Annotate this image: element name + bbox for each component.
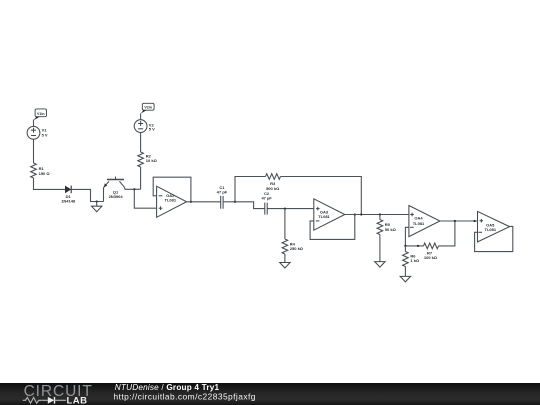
node junction at ground tap: [96, 200, 98, 202]
wire OA4 feedback left: [405, 227, 423, 246]
svg-text:TL081: TL081: [485, 227, 497, 232]
svg-text:100 kΩ: 100 kΩ: [424, 255, 438, 260]
svg-text:1 kΩ: 1 kΩ: [410, 258, 420, 263]
svg-text:TL081: TL081: [413, 221, 425, 226]
wire R7 to output: [439, 221, 455, 246]
svg-text:5 V: 5 V: [42, 132, 48, 137]
svg-text:50 kΩ: 50 kΩ: [385, 227, 397, 232]
node feedback tie: [454, 220, 456, 222]
node OA2 output junction: [190, 201, 192, 203]
wire collector to junction: [125, 188, 141, 190]
wire OA2 feedback: [153, 177, 191, 202]
svg-text:150 Ω: 150 Ω: [39, 171, 51, 176]
node V1in flag: [34, 109, 47, 120]
node J2: [234, 201, 236, 203]
wire R2 to junction: [140, 167, 142, 189]
logo diode glyph: [41, 397, 66, 404]
wire R1 to diode: [34, 178, 66, 189]
node OA5 input dot: [473, 220, 475, 222]
wire OA2 output to C1: [187, 201, 221, 203]
wire R4 to ground: [284, 254, 286, 263]
node J3: [284, 207, 286, 209]
resistor R1: [31, 163, 51, 178]
node R6/R7 junction: [404, 245, 406, 247]
wire V2 to R2: [140, 133, 142, 153]
resistor R7: [424, 243, 439, 260]
capacitor C2: [261, 191, 272, 215]
wire flag to V2: [140, 113, 142, 119]
wire J2 up and to R3: [235, 177, 266, 202]
ground: [92, 202, 102, 212]
wire C1 to J2: [223, 201, 235, 203]
node OA3 feedback junction: [354, 213, 356, 215]
wire OA3 feedback: [310, 215, 355, 240]
logo resistor glyph: [23, 397, 41, 403]
node R5 tie: [379, 213, 381, 215]
wire R5 to ground: [379, 235, 381, 262]
capacitor C1: [217, 185, 228, 209]
wire OA4 output to OA5: [440, 220, 478, 222]
wire J3 to R4: [284, 209, 286, 239]
svg-text:TL081: TL081: [318, 214, 330, 219]
node R7 terminal: [417, 245, 419, 247]
svg-text:V2in: V2in: [144, 105, 152, 109]
wire OA3 output to OA4: [345, 214, 409, 216]
ground: [400, 276, 410, 282]
op-amp OA3: [314, 199, 345, 230]
wire diode to emitter/ground: [71, 189, 103, 201]
node junction J1: [133, 188, 135, 190]
wire OA5 feedback: [475, 226, 513, 251]
voltage source V2: [134, 120, 155, 133]
wire to R5: [379, 215, 381, 220]
wire V1 to R1: [33, 139, 35, 163]
svg-text:TL081: TL081: [165, 198, 177, 203]
wire R3 to OA3 output node: [281, 177, 362, 215]
op-amp OA2: [157, 186, 187, 217]
wire J1 to OA2 + input: [134, 189, 156, 208]
svg-text:47 µF: 47 µF: [261, 195, 272, 200]
svg-text:250 kΩ: 250 kΩ: [290, 246, 304, 251]
wire R6 to ground: [404, 267, 406, 277]
svg-text:5 V: 5 V: [149, 126, 155, 131]
resistor R5: [377, 220, 396, 235]
wire flag to V1: [33, 120, 35, 127]
diode D1 1N4148: [61, 186, 76, 204]
resistor R4: [282, 239, 304, 254]
svg-text:2N3904: 2N3904: [109, 194, 124, 199]
svg-text:V1in: V1in: [37, 112, 45, 116]
svg-text:http://circuitlab.com/c22835pf: http://circuitlab.com/c22835pfjaxfg: [114, 392, 256, 402]
transistor Q1 2N3904: [104, 177, 125, 202]
op-amp OA5: [478, 211, 510, 242]
ground: [280, 263, 290, 269]
svg-text:LAB: LAB: [67, 396, 88, 405]
op-amp OA4: [409, 206, 440, 237]
ground: [375, 262, 385, 268]
resistor R2: [138, 152, 158, 167]
node V2in flag: [141, 103, 154, 113]
svg-text:47 pF: 47 pF: [217, 190, 228, 195]
resistor R6: [403, 246, 420, 267]
wire J2 to C2: [235, 202, 265, 209]
voltage source V1: [27, 126, 48, 139]
svg-text:OA4: OA4: [414, 216, 423, 221]
svg-text:1N4148: 1N4148: [61, 198, 76, 203]
resistor R3: [266, 174, 281, 191]
node R3 tie: [360, 213, 362, 215]
svg-text:10 kΩ: 10 kΩ: [146, 158, 158, 163]
wire C2 to OA3 + input: [267, 208, 314, 210]
